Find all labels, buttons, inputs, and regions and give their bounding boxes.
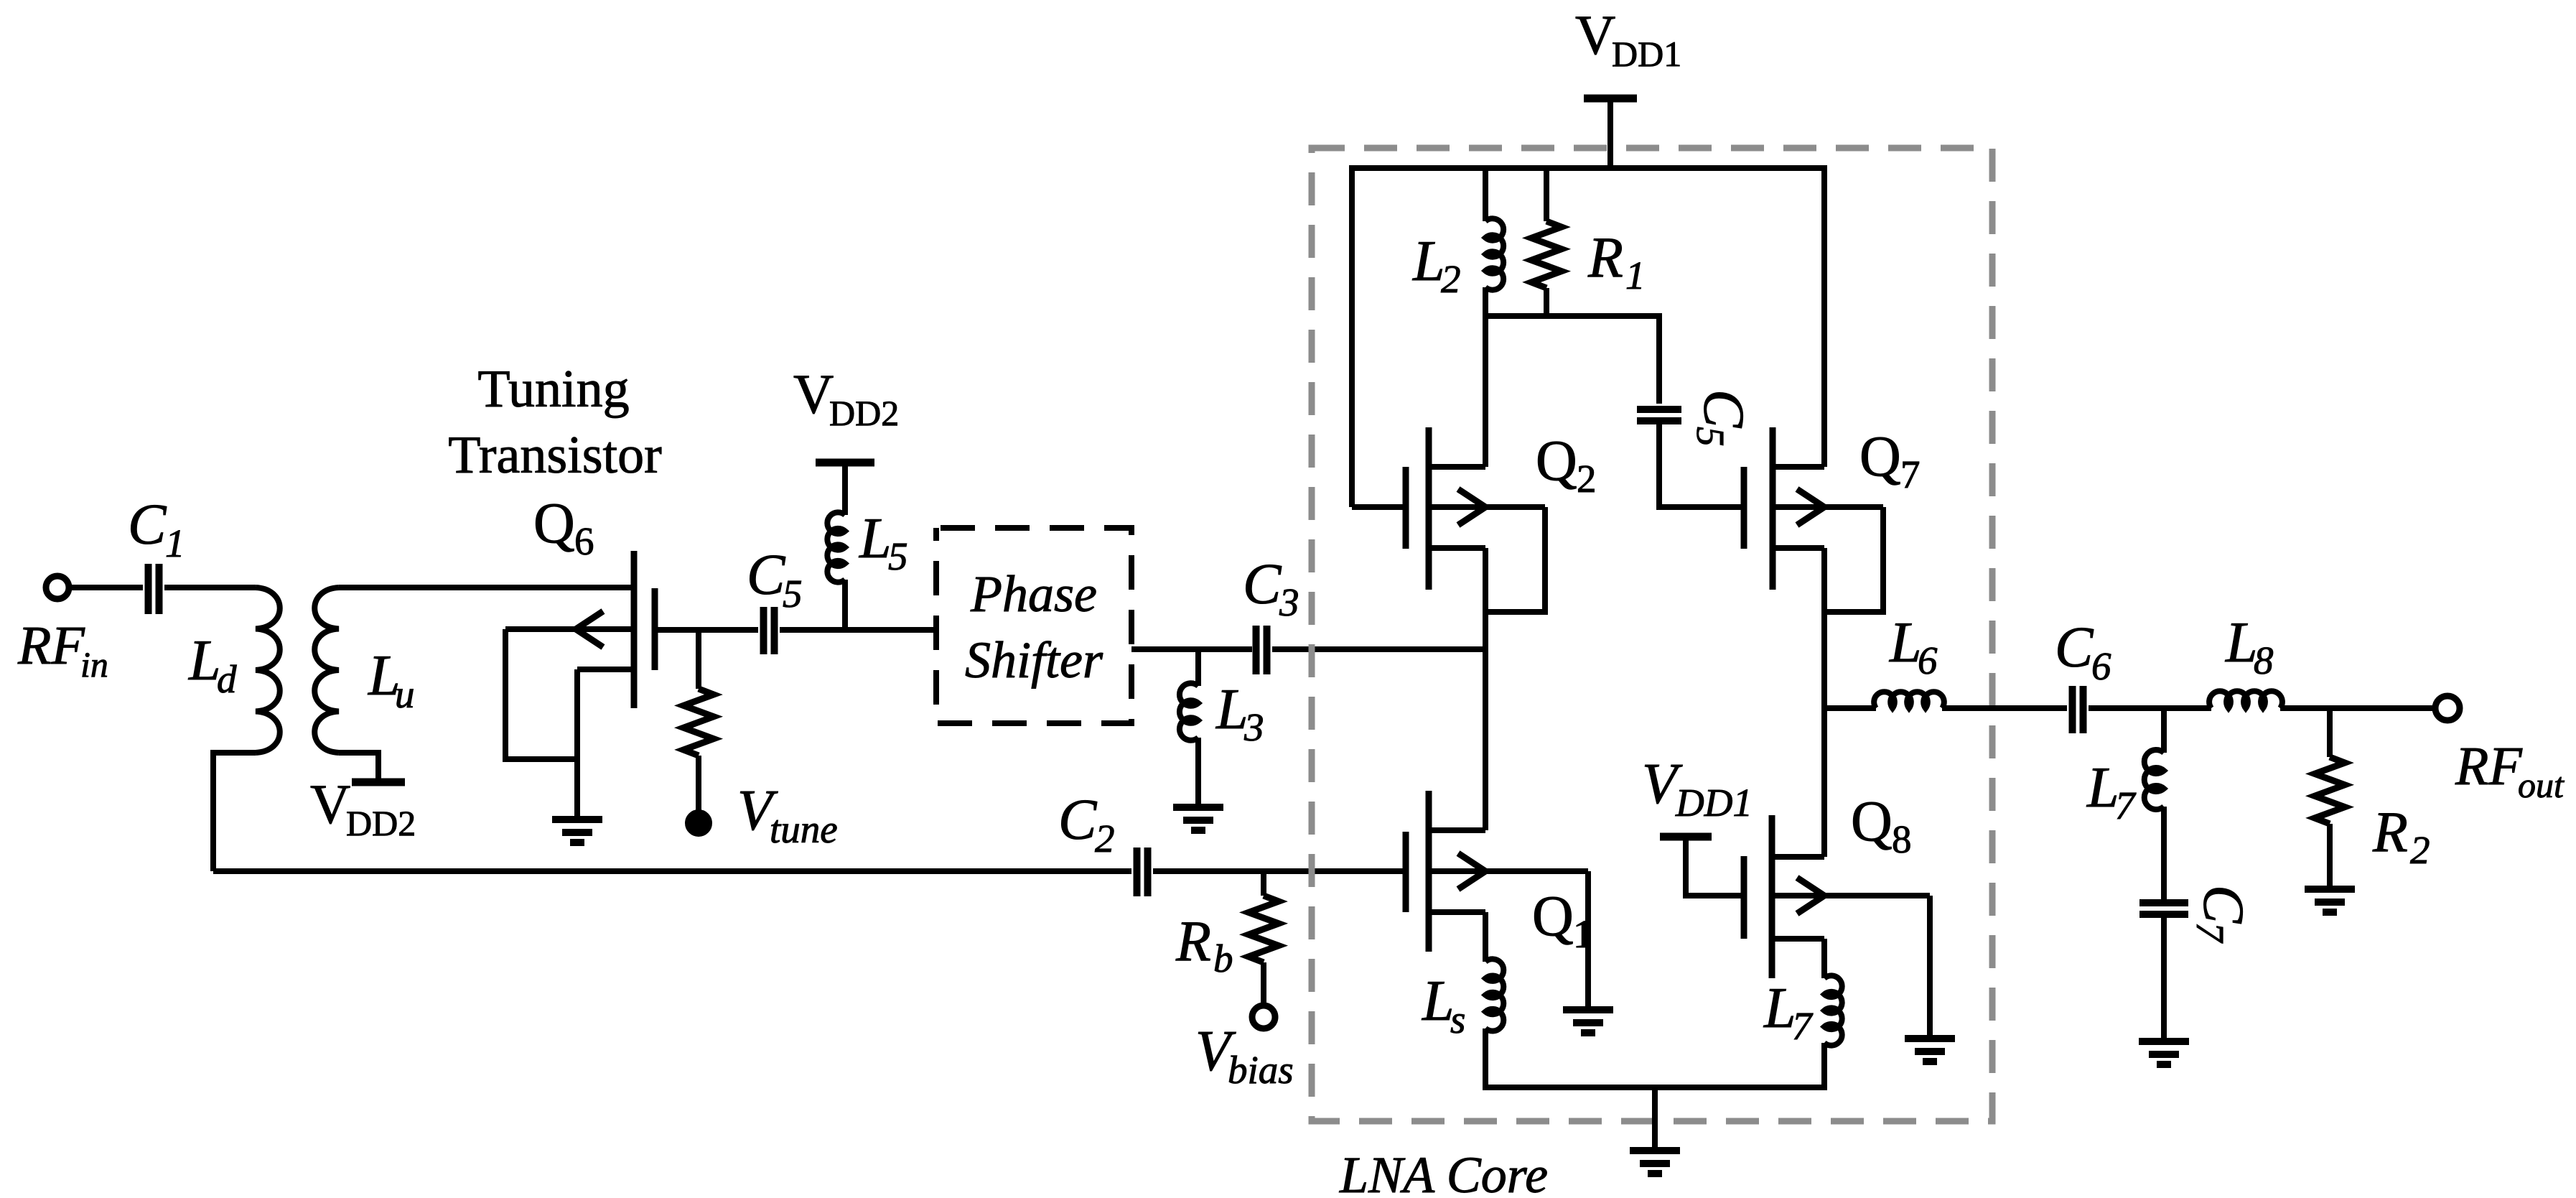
svg-text:L: L xyxy=(188,629,221,692)
wire xyxy=(2327,824,2333,889)
svg-text:d: d xyxy=(217,657,237,701)
svg-text:tune: tune xyxy=(770,807,838,851)
svg-text:Tuning: Tuning xyxy=(477,360,629,419)
transistor Q2 xyxy=(1426,427,1432,590)
wire xyxy=(842,580,848,630)
wire xyxy=(213,753,256,871)
wire xyxy=(69,585,143,590)
svg-text:RF: RF xyxy=(17,616,85,676)
resistor (Vtune) xyxy=(683,689,714,756)
capacitor C3 xyxy=(1253,626,1260,674)
ground xyxy=(1563,1006,1613,1013)
wire xyxy=(574,669,580,819)
wire xyxy=(213,868,1131,874)
svg-text:Q: Q xyxy=(533,492,575,555)
svg-text:C: C xyxy=(2191,885,2254,924)
inductor L7 xyxy=(1824,975,1842,1045)
LNA core box xyxy=(1312,148,1992,1121)
power VDD2 xyxy=(816,459,874,467)
svg-text:DD1: DD1 xyxy=(1612,34,1681,74)
svg-text:s: s xyxy=(1450,998,1465,1041)
ground xyxy=(1173,804,1223,811)
wire xyxy=(1824,705,1876,711)
svg-text:C: C xyxy=(1691,389,1755,429)
inductor Lu xyxy=(314,588,339,753)
port RF_in xyxy=(46,576,69,599)
power VDD2 xyxy=(352,779,405,786)
wire xyxy=(1824,507,1883,612)
wire xyxy=(1656,313,1662,404)
wire xyxy=(1483,168,1488,221)
wire xyxy=(1821,548,1827,857)
inductor Ls xyxy=(1485,959,1503,1031)
svg-text:Q: Q xyxy=(1859,425,1901,488)
capacitor C6 xyxy=(2069,686,2076,733)
node (Vtune tap) xyxy=(696,630,701,689)
wire xyxy=(1585,871,1591,1010)
svg-text:8: 8 xyxy=(2254,639,2274,682)
wire xyxy=(2280,705,2436,711)
ground xyxy=(552,816,602,823)
wire xyxy=(655,627,758,633)
ground xyxy=(1905,1035,1955,1042)
inductor L5 xyxy=(827,512,845,582)
svg-text:7: 7 xyxy=(2188,922,2232,944)
wire xyxy=(164,585,256,590)
node V_tune xyxy=(688,812,709,834)
svg-text:6: 6 xyxy=(1918,639,1938,682)
wire xyxy=(1485,313,1659,319)
wire xyxy=(1272,646,1485,652)
capacitor C1 xyxy=(145,564,152,614)
svg-text:3: 3 xyxy=(1279,580,1299,624)
wire xyxy=(1349,165,1355,507)
svg-text:RF: RF xyxy=(2455,736,2523,797)
inductor L8 xyxy=(2209,691,2282,708)
svg-text:b: b xyxy=(1213,937,1233,980)
svg-text:L: L xyxy=(1412,230,1445,293)
svg-text:L: L xyxy=(2086,756,2119,819)
phase shifter box xyxy=(936,528,1131,723)
svg-text:5: 5 xyxy=(783,572,803,616)
wire (top rail) xyxy=(1352,165,1824,171)
svg-text:R: R xyxy=(2372,801,2408,864)
capacitor C7 xyxy=(2139,899,2188,906)
wire xyxy=(2161,807,2167,900)
wire xyxy=(1261,871,1266,896)
inductor L3 xyxy=(1180,683,1198,740)
capacitor C2 xyxy=(1134,848,1141,896)
svg-text:u: u xyxy=(395,672,415,716)
wire xyxy=(1821,165,1827,467)
power VDD1 (Q8 gate) xyxy=(1660,833,1712,841)
inductor L6 xyxy=(1874,692,1944,708)
svg-text:Q: Q xyxy=(1532,885,1574,948)
wire xyxy=(1927,896,1933,1039)
svg-text:V: V xyxy=(793,363,834,425)
wire xyxy=(339,585,631,590)
port V_bias xyxy=(1252,1006,1275,1028)
svg-text:bias: bias xyxy=(1228,1048,1294,1092)
svg-text:6: 6 xyxy=(2091,644,2111,688)
wire xyxy=(1652,1087,1658,1151)
wire xyxy=(1261,962,1266,1006)
svg-text:5: 5 xyxy=(1689,427,1732,447)
wire xyxy=(1544,288,1549,316)
svg-text:5: 5 xyxy=(888,534,908,578)
wire xyxy=(2089,705,2211,711)
svg-text:DD2: DD2 xyxy=(829,393,899,433)
svg-text:V: V xyxy=(310,773,350,835)
wire xyxy=(696,756,701,812)
wire xyxy=(1821,939,1827,978)
svg-text:2: 2 xyxy=(1095,817,1115,860)
svg-text:LNA Core: LNA Core xyxy=(1339,1146,1548,1198)
svg-text:Q: Q xyxy=(1536,429,1577,493)
wire xyxy=(1544,168,1549,221)
wire xyxy=(1659,421,1744,507)
resistor R1 xyxy=(1531,221,1562,288)
wire (bottom rail) xyxy=(1483,1085,1827,1090)
wire xyxy=(1686,837,1744,896)
wire xyxy=(1607,98,1613,171)
svg-text:L: L xyxy=(1422,970,1455,1033)
svg-text:Transistor: Transistor xyxy=(448,426,661,485)
svg-text:2: 2 xyxy=(1441,257,1461,301)
wire xyxy=(1483,1028,1488,1090)
transistor Q1 xyxy=(1426,791,1432,952)
svg-text:L: L xyxy=(2225,611,2258,674)
svg-text:in: in xyxy=(80,644,108,684)
svg-text:C: C xyxy=(747,544,786,607)
svg-text:8: 8 xyxy=(1892,817,1912,861)
wire xyxy=(2327,708,2333,757)
wire xyxy=(1153,868,1403,874)
wire xyxy=(780,627,936,633)
wire xyxy=(1131,646,1252,652)
svg-text:DD2: DD2 xyxy=(346,803,416,843)
svg-text:L: L xyxy=(1889,611,1922,674)
svg-text:2: 2 xyxy=(2410,828,2430,872)
wire xyxy=(1821,1043,1827,1090)
svg-text:C: C xyxy=(2055,616,2094,679)
svg-text:R: R xyxy=(1587,226,1623,289)
resistor Rb xyxy=(1249,896,1279,962)
port RF_out xyxy=(2435,696,2460,720)
transistor Q6 xyxy=(631,551,638,708)
wire xyxy=(505,629,577,759)
svg-text:DD1: DD1 xyxy=(1675,781,1753,825)
svg-text:L: L xyxy=(859,507,892,570)
svg-text:V: V xyxy=(1575,4,1615,66)
resistor R2 xyxy=(2315,757,2345,824)
svg-text:2: 2 xyxy=(1577,457,1597,501)
svg-text:C: C xyxy=(128,493,167,557)
wire xyxy=(1483,287,1488,467)
svg-text:3: 3 xyxy=(1243,705,1264,749)
svg-text:out: out xyxy=(2518,765,2565,805)
capacitor C5 xyxy=(760,607,767,654)
svg-text:1: 1 xyxy=(1625,254,1646,297)
svg-text:L: L xyxy=(1763,977,1796,1040)
label C7 xyxy=(2188,885,2254,944)
wire xyxy=(1483,548,1488,830)
inductor L2 xyxy=(1485,218,1503,289)
ground xyxy=(2305,886,2355,893)
inductor Ld xyxy=(256,588,280,753)
svg-text:1: 1 xyxy=(165,521,185,565)
svg-text:C: C xyxy=(1243,553,1282,616)
svg-text:Shifter: Shifter xyxy=(965,631,1103,689)
svg-text:L: L xyxy=(1215,678,1249,741)
wire xyxy=(1483,912,1488,962)
svg-text:C: C xyxy=(1058,789,1098,852)
svg-text:Q: Q xyxy=(1851,790,1893,853)
transistor Q8 xyxy=(1769,815,1775,978)
svg-text:Phase: Phase xyxy=(970,565,1097,623)
wire xyxy=(1942,705,2067,711)
power VDD1 xyxy=(1584,95,1637,103)
ground (main) xyxy=(1630,1147,1680,1154)
svg-text:7: 7 xyxy=(2115,784,2137,827)
wire xyxy=(1485,507,1545,612)
ground xyxy=(2139,1038,2189,1045)
svg-text:R: R xyxy=(1175,910,1211,973)
wire xyxy=(2161,708,2167,753)
svg-text:7: 7 xyxy=(1792,1004,1814,1048)
wire xyxy=(1195,738,1201,807)
label C5 xyxy=(1689,389,1755,447)
wire xyxy=(339,753,378,780)
capacitor C5 xyxy=(1637,406,1681,413)
wire xyxy=(2161,914,2167,1041)
wire xyxy=(1195,649,1201,686)
svg-text:7: 7 xyxy=(1900,452,1921,496)
svg-text:6: 6 xyxy=(574,519,594,563)
transistor Q7 xyxy=(1770,427,1776,590)
inductor L7 (output) xyxy=(2145,750,2164,809)
wire xyxy=(842,463,848,515)
